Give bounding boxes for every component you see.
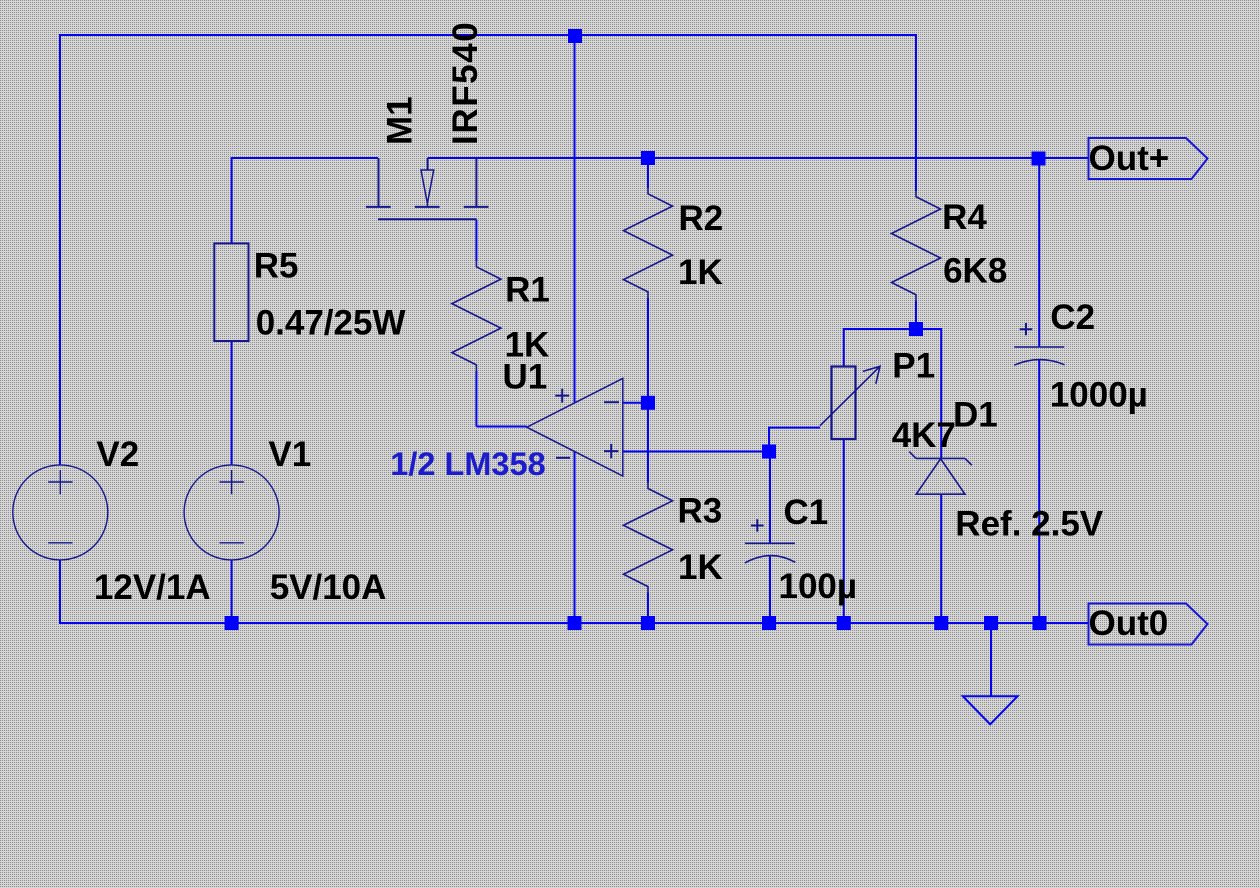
svg-text:Ref. 2.5V: Ref. 2.5V (955, 504, 1103, 543)
wire left vertical V2 bottom (59, 560, 61, 624)
svg-text:100µ: 100µ (779, 567, 858, 606)
svg-text:12V/1A: 12V/1A (94, 568, 211, 607)
source V2 (13, 465, 108, 560)
svg-text:IRF540: IRF540 (446, 21, 485, 145)
node C2 at ground rail (1033, 616, 1047, 630)
wire bottom ground rail (59, 622, 1089, 624)
node C1 at ground rail (762, 616, 776, 630)
wire ground stub (990, 623, 992, 696)
wire R2 top stub (647, 158, 649, 188)
svg-text:1/2 LM358: 1/2 LM358 (390, 446, 545, 482)
wire R4 upper drop from top rail (915, 34, 917, 191)
wire top 12V rail (60, 34, 916, 36)
svg-text:R4: R4 (942, 198, 987, 237)
diode D1 (909, 452, 972, 495)
wire left vertical V2 top (59, 34, 61, 465)
wire y158 left segment (232, 157, 378, 159)
wire y158 Out+ segment (428, 157, 1089, 159)
wire C2 bottom (1038, 360, 1040, 623)
wire R3 bottom stub (647, 593, 649, 624)
wire C1 bottom (769, 557, 771, 624)
wire P1 bottom (843, 439, 845, 623)
resistor R4 (892, 190, 941, 302)
node op-amp non-inverting input (762, 445, 776, 459)
resistor R3 (624, 482, 673, 594)
svg-text:Out0: Out0 (1089, 604, 1169, 643)
capacitor C1 (745, 519, 795, 563)
svg-text:1K: 1K (678, 253, 723, 292)
wire V1 bottom (231, 560, 233, 623)
node D1 at ground rail (934, 616, 948, 630)
transistor M1 (366, 158, 489, 219)
wire D1 bottom (940, 494, 942, 623)
wire node to D1 top (916, 328, 941, 458)
svg-text:4K7: 4K7 (892, 416, 956, 455)
svg-text:R3: R3 (678, 492, 723, 531)
wire node to P1 top (844, 328, 916, 367)
wire R1 top stub (475, 220, 477, 261)
svg-text:1K: 1K (678, 548, 723, 587)
node R3 at ground rail (641, 616, 655, 630)
node R2 top at Out+ rail (641, 151, 655, 165)
wire R3 top stub (647, 403, 649, 483)
wire R5 to V1 (231, 341, 233, 465)
wire R2 bottom to node (647, 298, 649, 403)
resistor R1 (452, 260, 501, 372)
svg-text:Out+: Out+ (1089, 139, 1170, 178)
node V1 at ground rail (225, 616, 239, 630)
wire wiper net (768, 428, 820, 452)
wire opamp supply vertical (574, 36, 576, 623)
svg-text:V1: V1 (268, 435, 311, 474)
resistor R5 (214, 243, 248, 341)
flag Out0 (1089, 604, 1208, 645)
flag Out+ (1089, 138, 1208, 179)
svg-text:R1: R1 (505, 271, 550, 310)
wire opamp minus pin (623, 402, 642, 404)
wire C2 top (1038, 159, 1040, 348)
svg-text:R2: R2 (679, 199, 724, 238)
svg-text:M1: M1 (381, 96, 420, 145)
source V1 (184, 465, 279, 560)
svg-text:1000µ: 1000µ (1050, 375, 1148, 414)
wire R1 bottom to opamp output (476, 371, 526, 427)
node supply line at ground rail (568, 616, 582, 630)
node op-amp inverting input (641, 396, 655, 410)
op-amp U1 (527, 378, 623, 476)
svg-text:C1: C1 (784, 493, 829, 532)
wire R4 bottom stub (915, 301, 917, 329)
node P1 at ground rail (837, 616, 851, 630)
wire R5 top stub (231, 157, 233, 243)
op-amp input marks (555, 389, 619, 459)
potentiometer P1 (820, 366, 880, 439)
node ground symbol tap (984, 616, 998, 630)
capacitor C2 (1014, 323, 1064, 365)
svg-text:D1: D1 (953, 395, 998, 434)
svg-text:6K8: 6K8 (943, 251, 1007, 290)
svg-text:R5: R5 (254, 247, 299, 286)
svg-text:C2: C2 (1050, 298, 1095, 337)
svg-text:V2: V2 (96, 435, 139, 474)
svg-text:0.47/25W: 0.47/25W (256, 304, 406, 343)
ground (963, 696, 1018, 724)
svg-text:U1: U1 (503, 358, 548, 397)
resistor R2 (624, 187, 673, 299)
wire C1 top (769, 452, 771, 544)
svg-text:5V/10A: 5V/10A (270, 568, 387, 607)
node R4/P1/D1 junction (909, 322, 923, 336)
node C2 top at Out+ rail (1032, 152, 1046, 166)
wire opamp plus pin (623, 451, 769, 453)
svg-text:P1: P1 (892, 346, 935, 385)
node supply tap at top rail (568, 29, 582, 43)
